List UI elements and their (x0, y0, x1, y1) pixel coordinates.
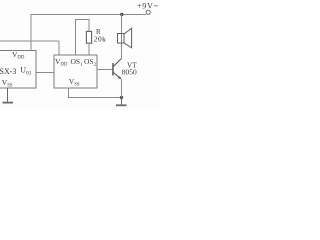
svg-text:8050: 8050 (122, 68, 137, 77)
wire resistor to OS2 pin (88, 43, 90, 55)
svg-text:20k: 20k (94, 34, 106, 43)
wire emitter down to ground bus (121, 79, 123, 98)
resistor R (86, 31, 91, 43)
wire left VDD drop from rail to IC1 (30, 14, 32, 51)
ground (IC1 VSS) (3, 88, 14, 103)
terminal +9V (146, 10, 150, 14)
transistor Q1 VT 8050 (112, 58, 121, 79)
svg-text:SX-3: SX-3 (0, 67, 16, 76)
speaker LS (118, 28, 132, 48)
op-amp U1 IC box SX-3 (0, 51, 36, 89)
wire top +9V rail (31, 13, 146, 15)
wire base from IC2 output (97, 69, 112, 71)
wire IC2 VSS to ground bus (69, 88, 122, 98)
wire VDD bus y=41 (0, 40, 59, 42)
node A junction dot on rail (120, 13, 123, 16)
ground (emitter) (116, 98, 127, 106)
svg-text:+9V~: +9V~ (137, 2, 159, 11)
wire collector up to speaker (121, 14, 123, 59)
wire U01 to IC2 input (36, 72, 54, 74)
wire IC2 VDD pin drop (58, 41, 60, 55)
wire OS1 to resistor bracket (76, 20, 90, 56)
node B junction dot emitter/ground (120, 96, 123, 99)
op-amp U2 IC box oscillator (54, 55, 97, 88)
